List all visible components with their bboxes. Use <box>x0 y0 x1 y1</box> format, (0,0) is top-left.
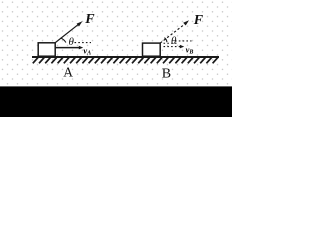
svg-text:A: A <box>63 64 73 79</box>
ground line <box>32 56 219 58</box>
dotted velocity arrow vB <box>164 45 185 49</box>
black bottom bar <box>0 86 232 117</box>
block B <box>143 43 161 56</box>
velocity arrow vA <box>55 46 83 50</box>
svg-text:B: B <box>162 67 171 82</box>
angle arc (left) <box>61 38 66 43</box>
force arrow F (left) <box>55 21 82 42</box>
svg-text:F: F <box>193 13 204 28</box>
dashed horizontal line from vertex (right) <box>164 42 179 44</box>
dashed reference line (right) <box>175 40 192 42</box>
svg-text:θ: θ <box>69 36 75 48</box>
block A <box>38 43 55 56</box>
ground hatching <box>33 58 218 64</box>
dashed reference line (left) <box>75 42 92 44</box>
angle arc (right) <box>164 38 167 43</box>
dashed force arrow F (right) <box>160 20 189 43</box>
svg-text:F: F <box>84 12 95 27</box>
